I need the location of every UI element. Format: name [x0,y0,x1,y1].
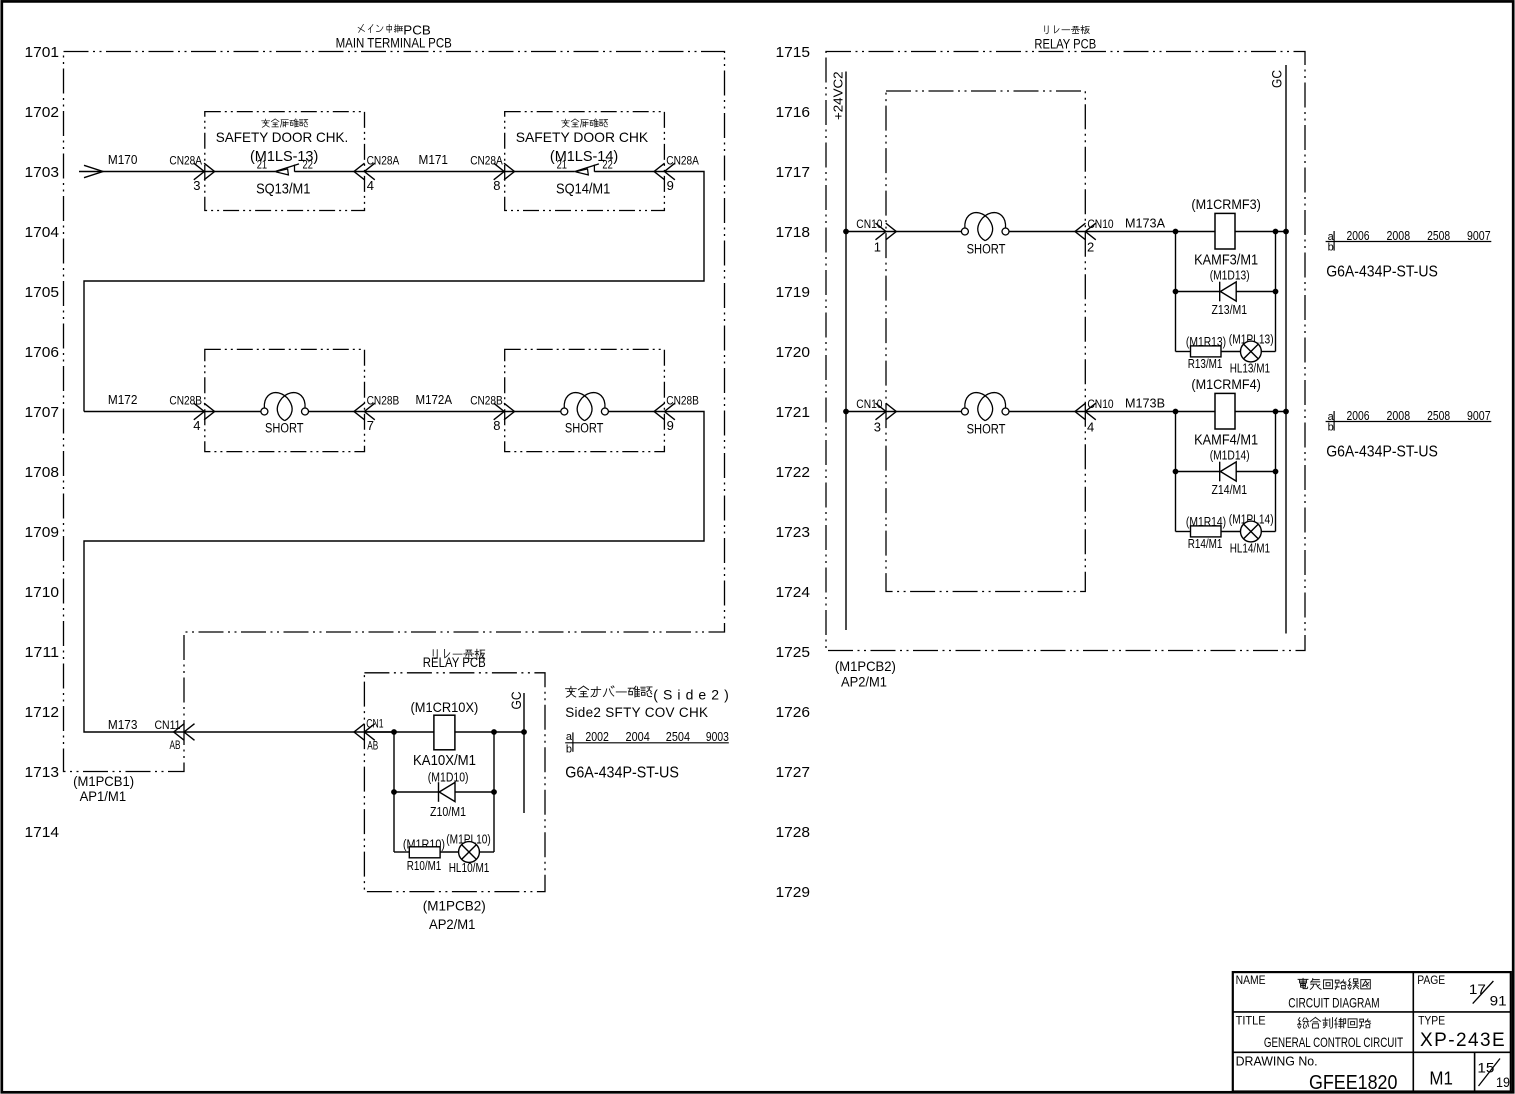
svg-text:AP1/M1: AP1/M1 [80,788,127,804]
svg-text:HL13/M1: HL13/M1 [1230,361,1270,376]
svg-text:1721: 1721 [776,404,811,421]
label リレー基板 [1045,26,1090,34]
wire inside SQ14 box left [505,171,575,173]
svg-text:22: 22 [602,158,613,172]
svg-text:9007: 9007 [1467,408,1491,423]
wire inside SHORT box 1 left [205,411,261,413]
svg-text:KAMF4/M1: KAMF4/M1 [1194,432,1258,449]
svg-text:TYPE: TYPE [1418,1013,1445,1027]
svg-text:2006: 2006 [1347,228,1370,243]
svg-text:1707: 1707 [25,404,60,421]
wire resistor to lamp [1221,351,1241,353]
svg-text:1728: 1728 [776,824,811,841]
svg-text:7: 7 [367,418,374,433]
svg-text:SAFETY DOOR CHK: SAFETY DOOR CHK [516,129,649,145]
svg-text:1701: 1701 [25,44,60,61]
svg-text:1723: 1723 [776,524,811,541]
wire to resistor [1176,531,1191,533]
svg-text:1725: 1725 [776,644,811,661]
svg-text:1719: 1719 [776,284,811,301]
wire diode row [1176,471,1276,473]
svg-text:1713: 1713 [25,764,60,781]
wire left branch [1175,232,1177,352]
connector arrow CN1-AB [354,724,375,741]
label 総合制御回路 [1298,1017,1371,1028]
lamp HL10/M1 [459,842,480,863]
svg-text:CIRCUIT DIAGRAM: CIRCUIT DIAGRAM [1288,994,1379,1010]
svg-text:91: 91 [1490,993,1507,1008]
svg-text:PAGE: PAGE [1417,973,1445,987]
svg-text:1706: 1706 [25,344,60,361]
svg-text:SAFETY DOOR CHK.: SAFETY DOOR CHK. [216,129,348,145]
svg-text:KAMF3/M1: KAMF3/M1 [1194,252,1258,269]
diode Z14/M1 [1220,462,1237,482]
wire inside SQ13 box left [205,171,275,173]
title block divider row2/row3 [1233,1051,1511,1053]
svg-text:17: 17 [1469,982,1486,997]
board outline RELAY PCB right (dash-dot-dot) [826,52,1305,651]
svg-text:b: b [1328,242,1334,254]
svg-text:2508: 2508 [1427,228,1450,243]
svg-text:(M1CR10X): (M1CR10X) [411,699,479,715]
svg-text:RELAY PCB: RELAY PCB [423,655,486,670]
svg-text:1715: 1715 [776,44,811,61]
junction node on GC rail [1283,229,1289,235]
svg-text:2002: 2002 [585,729,609,744]
SHORT jumper symbol [961,213,1009,241]
svg-text:1714: 1714 [25,824,60,841]
svg-text:1720: 1720 [776,344,811,361]
connector arrow CN28A-4 [354,163,375,180]
svg-text:2004: 2004 [626,729,650,744]
diode Z13/M1 [1220,282,1237,302]
label 電気回路線図 [1298,978,1370,989]
svg-text:SHORT: SHORT [565,421,604,436]
svg-text:M170: M170 [108,153,138,167]
wire left branch [393,732,395,852]
svg-text:(M1PCB1): (M1PCB1) [73,773,134,789]
limit switch contact SQ13 (NC) [275,164,299,175]
svg-text:R14/M1: R14/M1 [1188,536,1223,551]
svg-text:SHORT: SHORT [967,242,1006,257]
svg-text:AP2/M1: AP2/M1 [429,916,476,932]
SHORT jumper symbol 1 [261,393,309,421]
junction node on GC rail [1283,409,1289,415]
svg-text:CN28A: CN28A [470,153,503,167]
connector arrow CN28A-3 [194,163,215,180]
title block [1233,972,1511,1091]
svg-text:1704: 1704 [25,224,60,241]
lamp HL14/M1 [1241,521,1262,542]
wire diode row [394,791,494,793]
component box SQ13 (dashed) [205,112,365,211]
svg-text:1729: 1729 [776,884,811,901]
svg-text:1718: 1718 [776,224,811,241]
relay coil KAMF3/M1 [1215,213,1235,249]
component box SQ14 (dashed) [505,112,665,211]
svg-text:2006: 2006 [1347,408,1370,423]
diode Z10/M1 [439,782,456,802]
svg-text:G6A-434P-ST-US: G6A-434P-ST-US [565,765,679,782]
wire right branch [493,732,495,852]
svg-text:SHORT: SHORT [967,422,1006,437]
svg-text:GC: GC [1270,70,1285,88]
svg-text:8: 8 [493,418,500,433]
svg-text:1708: 1708 [25,464,60,481]
wire inside SHORT box 2 left [505,411,561,413]
svg-text:M172A: M172A [416,393,453,407]
resistor R14/M1 [1191,526,1222,537]
label 安全扉確認 [262,119,308,127]
board outline RELAY PCB M1PCB2 (dash-dot-dot) [364,673,545,892]
svg-text:8: 8 [493,178,500,193]
junction node [491,729,497,735]
svg-text:1724: 1724 [776,584,811,601]
wire coil to GC rail [1235,411,1286,413]
junction node on +24VC2 rail [843,229,849,235]
wire to resistor [1176,351,1191,353]
wire left branch [1175,412,1177,532]
junction node on GC rail [521,729,527,735]
svg-text:SHORT: SHORT [265,421,304,436]
wire resistor to lamp [440,851,459,853]
svg-text:1727: 1727 [776,764,811,781]
wire to resistor [394,851,409,853]
relay coil KA10X/M1 [434,715,455,750]
svg-text:4: 4 [1087,420,1094,435]
line number labels 1701-1714 [25,44,60,841]
svg-text:CN10: CN10 [1087,397,1113,411]
svg-text:1717: 1717 [776,164,811,181]
svg-text:21: 21 [257,158,268,172]
svg-text:3: 3 [874,420,881,435]
component box SHORT jumper 1 (dashed) [205,349,365,451]
svg-text:(M1D13): (M1D13) [1210,269,1250,283]
svg-text:GFEE1820: GFEE1820 [1309,1072,1397,1094]
junction node [1273,469,1279,475]
junction node on +24VC2 rail [843,409,849,415]
wire from CN28B-9 down to M173 row [84,412,704,733]
junction node [1173,289,1179,295]
svg-text:HL14/M1: HL14/M1 [1230,541,1270,556]
title block divider M1/sheet [1474,1052,1476,1091]
limit switch contact SQ14 (NC) [575,164,599,175]
svg-text:M173: M173 [108,718,138,732]
wire M171 [365,171,505,173]
junction node [391,729,397,735]
connector arrow CN28B-8 [494,403,515,420]
junction node [1173,229,1179,235]
resistor R10/M1 [409,847,440,858]
svg-text:+24VC2: +24VC2 [831,72,846,121]
svg-text:CN28B: CN28B [470,393,503,407]
wire coil to GC rail [1235,231,1286,233]
svg-text:R10/M1: R10/M1 [407,858,442,873]
svg-text:9003: 9003 [706,729,729,744]
svg-text:GC: GC [509,691,524,709]
junction node [1173,469,1179,475]
wire M173B [1009,411,1215,413]
source arrow M170 [84,165,103,177]
svg-text:M172: M172 [108,393,138,407]
connector arrow CN10-2 [1075,223,1096,240]
wire inside SHORT box 2 right [608,411,665,413]
connector arrow CN28A-9 [654,163,675,180]
board outline M1PCB1 MAIN TERMINAL PCB (dash-dot-dot) [64,52,725,772]
wire lamp to branch [1261,351,1275,353]
title block divider name/page [1412,972,1414,1052]
svg-text:21: 21 [557,158,568,172]
connector arrow CN10-3 [876,403,897,420]
lamp HL13/M1 [1241,341,1262,362]
wire CN1 to coil KA10X [364,731,434,733]
svg-text:2508: 2508 [1427,408,1450,423]
title block divider row1/row2 [1233,1011,1511,1013]
svg-text:b: b [1328,422,1334,434]
svg-text:(M1D10): (M1D10) [428,770,469,784]
svg-text:M1: M1 [1429,1069,1453,1089]
wire resistor to lamp [1221,531,1241,533]
svg-text:1703: 1703 [25,164,60,181]
svg-text:CN28A: CN28A [666,153,699,167]
svg-text:NAME: NAME [1236,973,1266,987]
junction node [1273,409,1279,415]
connector arrow CN11-AB [174,724,195,741]
label 安全扉確認 [562,119,608,127]
svg-text:1716: 1716 [776,104,811,121]
wire M170 [79,171,205,173]
resistor R13/M1 [1191,346,1222,357]
svg-text:M173B: M173B [1125,397,1165,411]
line number labels 1715-1729 [776,44,811,901]
svg-text:1722: 1722 [776,464,811,481]
+24VC2 power rail [845,72,847,631]
connector arrow CN28B-7 [354,403,375,420]
svg-text:SQ14/M1: SQ14/M1 [556,181,610,198]
svg-text:b: b [566,744,572,756]
svg-text:2008: 2008 [1387,228,1411,243]
junction node [391,789,397,795]
svg-text:CN10: CN10 [856,217,882,231]
svg-text:2: 2 [1087,240,1094,255]
svg-text:1710: 1710 [25,584,60,601]
GC rail right [1285,65,1287,634]
svg-text:R13/M1: R13/M1 [1188,356,1223,371]
junction node [1273,289,1279,295]
svg-text:(M1PCB2): (M1PCB2) [835,658,896,674]
svg-text:M171: M171 [419,153,449,167]
wire inside SQ14 box right [594,171,664,173]
svg-text:TITLE: TITLE [1236,1013,1266,1027]
wire lamp to branch [1261,531,1275,533]
wire M173A [1009,231,1215,233]
svg-text:(Side2): (Side2) [653,686,729,702]
wire M172A [365,411,505,413]
svg-text:1705: 1705 [25,284,60,301]
connector arrow CN10-4 [1075,403,1096,420]
svg-text:1702: 1702 [25,104,60,121]
svg-text:1712: 1712 [25,704,60,721]
label メイン中継PCB (kanji) [358,24,403,32]
junction node [1273,229,1279,235]
wire right branch [1275,412,1277,532]
label リレー基板 [433,649,485,658]
title block divider drawing/M1 [1412,1052,1414,1091]
svg-text:HL10/M1: HL10/M1 [449,860,490,875]
svg-text:GENERAL CONTROL CIRCUIT: GENERAL CONTROL CIRCUIT [1264,1034,1404,1050]
component box SHORT jumper 2 (dashed) [505,349,665,451]
junction node [491,789,497,795]
svg-text:AB: AB [170,740,181,752]
svg-text:1709: 1709 [25,524,60,541]
wire rail to SHORT [846,411,961,413]
wire diode row [1176,291,1276,293]
connector arrow CN28A-8 [494,163,515,180]
svg-text:Z13/M1: Z13/M1 [1212,302,1248,317]
svg-text:Z14/M1: Z14/M1 [1212,482,1248,497]
wire inside SQ13 box right [295,171,365,173]
svg-text:MAIN TERMINAL PCB: MAIN TERMINAL PCB [336,34,452,50]
svg-text:(M1PCB2): (M1PCB2) [423,897,486,913]
svg-text:9: 9 [667,418,674,433]
svg-text:AB: AB [367,741,378,753]
SHORT jumper symbol 2 [561,393,609,421]
svg-text:a: a [566,731,573,743]
relay coil KAMF4/M1 [1215,393,1235,429]
svg-text:AP2/M1: AP2/M1 [841,674,887,690]
label 安全カバー確認 [566,686,652,697]
wire rail to SHORT [846,231,961,233]
wire from CN28A-9 down to row 1707 [84,172,704,412]
svg-text:9007: 9007 [1467,228,1491,243]
svg-text:9: 9 [667,178,674,193]
GC rail [523,693,525,813]
svg-text:1: 1 [874,240,881,255]
SHORT jumper symbol [961,393,1009,421]
svg-text:4: 4 [367,178,374,193]
connector arrow CN10-1 [876,223,897,240]
svg-text:(M1CRMF3): (M1CRMF3) [1191,196,1260,212]
svg-text:SQ13/M1: SQ13/M1 [256,181,310,198]
svg-text:CN28B: CN28B [666,393,699,407]
wire inside SHORT box 1 right [308,411,365,413]
svg-text:22: 22 [303,158,314,172]
svg-text:19: 19 [1496,1075,1510,1090]
svg-text:Z10/M1: Z10/M1 [430,804,466,819]
svg-text:G6A-434P-ST-US: G6A-434P-ST-US [1326,263,1438,280]
connector arrow CN28B-4 [194,403,215,420]
svg-text:15: 15 [1477,1060,1494,1075]
connector arrow CN28B-9 [654,403,675,420]
junction node [1173,409,1179,415]
wire M172 [84,411,205,413]
svg-text:CN10: CN10 [1087,217,1113,231]
svg-text:(M1CRMF4): (M1CRMF4) [1191,376,1260,392]
svg-text:G6A-434P-ST-US: G6A-434P-ST-US [1326,443,1438,460]
svg-text:DRAWING No.: DRAWING No. [1236,1054,1318,1069]
svg-text:RELAY PCB: RELAY PCB [1034,37,1096,52]
inner dashed board section [886,91,1085,592]
svg-text:2008: 2008 [1387,408,1411,423]
svg-text:1726: 1726 [776,704,811,721]
svg-text:KA10X/M1: KA10X/M1 [413,752,476,769]
svg-text:Side2 SFTY COV CHK: Side2 SFTY COV CHK [565,705,708,720]
svg-text:2504: 2504 [666,729,690,744]
svg-text:M173A: M173A [1125,217,1166,231]
svg-text:(M1D14): (M1D14) [1210,449,1250,463]
wire lamp to branch [479,851,494,853]
wire right branch [1275,232,1277,352]
wire coil to GC rail [455,731,524,733]
svg-text:CN10: CN10 [856,397,882,411]
svg-text:1711: 1711 [25,644,60,661]
